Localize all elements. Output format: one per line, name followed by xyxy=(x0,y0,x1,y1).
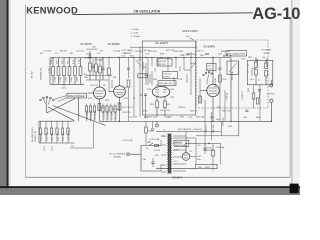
component labels center xyxy=(142,50,205,91)
svg-text:S2-1: S2-1 xyxy=(44,145,46,150)
resistor box R24 xyxy=(158,81,176,86)
svg-text:R20 390k: R20 390k xyxy=(174,51,184,53)
S3 contact dots xyxy=(223,54,231,56)
svg-text:C7 25μ: C7 25μ xyxy=(113,51,121,53)
left edge shadow xyxy=(9,0,11,195)
svg-text:C31 0.2μ: C31 0.2μ xyxy=(41,131,43,141)
svg-text:C34 .02μ: C34 .02μ xyxy=(58,131,60,141)
cathode resistor R10 xyxy=(118,103,126,110)
box 560k-390k xyxy=(196,164,218,169)
capacitor C10 xyxy=(144,94,147,117)
resistor chain x205 xyxy=(205,111,215,146)
extra rail labels xyxy=(121,51,231,58)
left vertical wire to bus xyxy=(38,121,40,143)
multiplier tap wires xyxy=(247,57,268,82)
resistor R7 xyxy=(89,58,92,81)
labels psu area xyxy=(142,126,233,161)
rotary switch S1 hub contacts xyxy=(40,96,55,105)
svg-text:FREQ RANGE: FREQ RANGE xyxy=(68,95,85,98)
legend notes xyxy=(131,29,143,38)
svg-text:C22 470P: C22 470P xyxy=(186,54,196,56)
page right border line xyxy=(289,19,291,177)
svg-text:R32 1k: R32 1k xyxy=(190,111,198,113)
oscillator network box xyxy=(157,59,172,66)
voltage multiplier enclosure box xyxy=(247,60,272,85)
6AR5 region verticals xyxy=(219,58,226,122)
switch shaft vertical wire xyxy=(78,97,80,121)
svg-text:560 ← 390V: 560 ← 390V xyxy=(198,167,211,169)
twin triode V1 12AT7 xyxy=(152,84,170,101)
filter cap C41 xyxy=(246,110,249,111)
capacitor C2 xyxy=(102,58,105,81)
wire tube1 plate xyxy=(86,79,108,81)
svg-text:C INPUT: C INPUT xyxy=(242,91,244,100)
svg-text:2. 1kHz: 2. 1kHz xyxy=(131,33,138,35)
capacitor bank small C56 xyxy=(110,104,114,122)
capacitor bank small C53 xyxy=(93,104,97,122)
svg-text:C26 0.1: C26 0.1 xyxy=(196,51,204,53)
right page edge line xyxy=(291,0,292,195)
label C44-B xyxy=(204,148,214,153)
svg-text:200V+2: 200V+2 xyxy=(175,142,183,144)
jack small circle below rail xyxy=(156,121,159,127)
inner verticals of S4 section xyxy=(140,47,191,118)
svg-text:S3-2: S3-2 xyxy=(241,59,246,61)
svg-text:R13 470: R13 470 xyxy=(122,112,131,114)
svg-text:C4 0.02: C4 0.02 xyxy=(76,51,84,53)
cathode resistor R9 xyxy=(98,104,105,111)
junction dots lower xyxy=(119,116,272,144)
pentode V2 6AR5 xyxy=(200,58,219,122)
triode V1b 6AV6 xyxy=(109,58,125,122)
svg-text:C36 5000P: C36 5000P xyxy=(69,130,71,141)
svg-text:2.2M: 2.2M xyxy=(49,68,51,73)
multiplier resistor chain B xyxy=(265,60,268,85)
range capacitor C36 xyxy=(67,121,71,143)
page bottom border line xyxy=(26,176,291,178)
svg-text:C6 100P: C6 100P xyxy=(104,110,106,119)
svg-text:C23 0.1: C23 0.1 xyxy=(164,74,172,76)
wire rail to attenuator xyxy=(230,58,232,122)
svg-text:R24 47k+47k: R24 47k+47k xyxy=(159,83,173,85)
svg-text:R8 500k: R8 500k xyxy=(116,110,118,119)
power transformer T1 xyxy=(167,134,171,174)
output terminal J1 xyxy=(270,80,273,87)
svg-text:VOLTAGE: VOLTAGE xyxy=(261,49,272,52)
extra labels right of tubes xyxy=(88,87,129,100)
grid cluster components xyxy=(92,58,102,81)
switch wiper wire C xyxy=(52,105,105,125)
svg-text:200 10P: 200 10P xyxy=(158,61,167,63)
labels right mid column xyxy=(215,77,229,100)
grid components cluster xyxy=(108,58,112,93)
svg-text:10P: 10P xyxy=(207,69,211,71)
svg-text:C32 0.1μ: C32 0.1μ xyxy=(47,131,49,141)
psu filter caps xyxy=(204,144,215,171)
second label row above rail xyxy=(43,47,121,53)
wave switch S4 contacts xyxy=(203,72,212,85)
grid line across xyxy=(130,46,197,48)
corner registration black square xyxy=(290,184,299,194)
svg-text:C13 50μ: C13 50μ xyxy=(134,51,143,53)
svg-text:CM 200/4W: CM 200/4W xyxy=(86,49,98,51)
svg-text:S4-1: S4-1 xyxy=(138,60,143,62)
capacitor C30 xyxy=(152,158,155,167)
right margin strip xyxy=(293,0,301,195)
svg-text:C7 50P: C7 50P xyxy=(112,112,114,120)
capacitor box C23 xyxy=(163,72,178,79)
svg-text:10k ←12k: 10k ←12k xyxy=(160,110,171,112)
bus under resistor bank xyxy=(50,83,84,85)
lower bus y163 xyxy=(196,135,239,137)
B+ rail from rectifier xyxy=(186,143,221,145)
capacitor bank small C52 xyxy=(89,104,93,122)
range capacitor C35 xyxy=(61,121,65,143)
wire tube1 area to AC region xyxy=(70,121,94,148)
svg-text:C28 25μ: C28 25μ xyxy=(223,117,225,126)
svg-text:C25 8μ: C25 8μ xyxy=(178,107,186,109)
ground bus wire xyxy=(39,142,75,144)
svg-text:C6 25μ: C6 25μ xyxy=(84,58,92,60)
svg-text:VR 500k: VR 500k xyxy=(232,71,234,80)
extra cluster near CM cap xyxy=(84,53,104,61)
svg-text:R7 100k: R7 100k xyxy=(95,60,104,62)
right-lower verticals xyxy=(248,85,260,122)
small labels top rail xyxy=(40,53,223,56)
bank top bus wire xyxy=(39,120,74,122)
range capacitor C32 xyxy=(45,121,49,143)
dashes texture marks in S4 box xyxy=(143,62,191,95)
resistor R16 xyxy=(164,101,167,117)
label row center y55 xyxy=(122,50,195,81)
svg-text:C15 0.1: C15 0.1 xyxy=(126,107,134,109)
bottom rail wire xyxy=(156,167,196,169)
PSU spec box xyxy=(174,140,189,147)
S4 wiper arrows xyxy=(136,60,196,68)
range capacitor C33 xyxy=(50,121,54,143)
bottom page dark edge xyxy=(0,186,300,188)
svg-text:WAVE FORM: WAVE FORM xyxy=(182,30,197,33)
svg-text:V1 6AV6: V1 6AV6 xyxy=(80,42,92,46)
svg-text:V1 12AT7: V1 12AT7 xyxy=(155,41,168,45)
attenuator label box R63 xyxy=(226,51,247,57)
multiplier resistor chain A xyxy=(255,58,258,85)
left page dark edge xyxy=(7,0,9,195)
node dots on rail xyxy=(52,57,213,59)
svg-text:R4 8M(F+F): R4 8M(F+F) xyxy=(41,68,43,80)
svg-text:C38 40μ: C38 40μ xyxy=(216,147,225,149)
svg-text:R6 1M(F): R6 1M(F) xyxy=(108,110,110,120)
svg-text:3. 10kHz: 3. 10kHz xyxy=(131,36,140,38)
svg-text:G: G xyxy=(104,90,106,92)
svg-text:AG-10: AG-10 xyxy=(252,5,300,23)
resistor R1 xyxy=(49,58,54,85)
mid-left horizontal wire y75 xyxy=(86,75,112,77)
svg-text:R18 27k: R18 27k xyxy=(149,51,158,53)
labels row below tubes xyxy=(126,107,231,113)
labels psu detail xyxy=(148,130,202,161)
cap C13 xyxy=(145,63,148,85)
capacitor bank small C57 xyxy=(114,104,118,122)
resistor R5 xyxy=(74,58,77,85)
svg-text:R17 1M(B): R17 1M(B) xyxy=(122,50,133,52)
page left border line xyxy=(25,5,27,178)
left scan border grey strip xyxy=(0,0,7,195)
svg-text:50/60Hz: 50/60Hz xyxy=(113,156,121,158)
switch shaft stub xyxy=(46,105,48,113)
resistor R4 xyxy=(68,58,71,85)
svg-text:OUTPUT: OUTPUT xyxy=(267,94,276,96)
left vertical wire xyxy=(49,58,51,85)
misc labels lower mid xyxy=(128,117,215,119)
svg-text:+000: +000 xyxy=(61,88,67,90)
mid horizontal wire xyxy=(99,120,271,122)
small caps at x259 xyxy=(258,90,261,99)
svg-text:R34 12k: R34 12k xyxy=(213,124,215,133)
vertical wire x239 xyxy=(238,61,240,136)
power switch S5 xyxy=(146,142,153,150)
bottom scan border grey strip xyxy=(0,188,300,195)
header rule line xyxy=(73,13,254,15)
lower mid rail wire xyxy=(156,131,221,133)
svg-text:C9 50μ: C9 50μ xyxy=(112,109,120,111)
svg-text:C5 250P: C5 250P xyxy=(95,110,97,119)
extra rail labels 2 xyxy=(134,51,196,56)
rail junction dots tile B xyxy=(95,57,191,58)
small labels lower right xyxy=(216,117,261,126)
svg-text:C35 .01μ: C35 .01μ xyxy=(63,131,65,141)
misc labels mid left xyxy=(84,74,117,87)
svg-text:S2-2: S2-2 xyxy=(52,145,54,150)
svg-text:KENWOOD: KENWOOD xyxy=(26,6,78,16)
oscillator section solid enclosure xyxy=(142,41,195,115)
screen resistor R30 xyxy=(219,75,228,82)
svg-text:5.0-5V 6A: 5.0-5V 6A xyxy=(123,139,133,142)
svg-text:R28 280(7W) + 500μF(L): R28 280(7W) + 500μF(L) xyxy=(178,129,203,131)
svg-text:C8 0.02: C8 0.02 xyxy=(90,85,98,87)
svg-text:CM: CM xyxy=(92,47,96,49)
svg-text:S6-2M 7.5F: S6-2M 7.5F xyxy=(35,130,37,142)
coupling components near V2 xyxy=(199,78,205,112)
heater tap labels xyxy=(162,136,179,163)
svg-text:AC 117V(50/60): AC 117V(50/60) xyxy=(110,153,126,156)
svg-text:R60 900k: R60 900k xyxy=(267,57,269,67)
svg-text:F1 1A: F1 1A xyxy=(154,149,160,152)
range capacitor C31 xyxy=(39,121,43,143)
svg-text:AT 46T: AT 46T xyxy=(31,70,34,78)
svg-text:R4 1M: R4 1M xyxy=(60,51,67,53)
svg-text:MULTI: MULTI xyxy=(264,53,271,55)
pilot lamp wire xyxy=(151,121,154,131)
resistor box x130 xyxy=(127,80,130,121)
AC plug P1 xyxy=(110,153,142,159)
output terminal J2 xyxy=(270,99,273,121)
svg-text:6.3V 0.6A: 6.3V 0.6A xyxy=(150,138,160,141)
svg-text:R22 470: R22 470 xyxy=(148,117,157,119)
rectifier tube V3 6X4 xyxy=(182,144,190,161)
transformer aux wires xyxy=(173,138,196,164)
labels left column detail xyxy=(41,68,79,82)
paper background xyxy=(0,0,300,195)
svg-text:C29 0.1: C29 0.1 xyxy=(206,125,208,133)
svg-text:R4 2M(F): R4 2M(F) xyxy=(91,110,93,120)
capacitor bank small C51 xyxy=(85,104,89,122)
extra labels center bottom xyxy=(133,117,205,119)
ground mark xyxy=(61,84,67,89)
svg-text:C38 8μ: C38 8μ xyxy=(227,92,229,100)
svg-text:VR 2M: VR 2M xyxy=(158,64,165,66)
svg-text:V2 6AR5: V2 6AR5 xyxy=(108,42,120,46)
switch wiper wire B xyxy=(48,107,75,121)
misc labels bottom left bank xyxy=(71,146,74,148)
wire multiplier to output xyxy=(256,84,271,86)
resistor R2 xyxy=(57,58,60,85)
extra center verticals in S4 box xyxy=(133,58,191,118)
extra labels right column mid xyxy=(232,71,244,100)
capacitor C1 xyxy=(86,49,98,57)
top B+ rail wire xyxy=(50,57,231,59)
fuse F1 xyxy=(155,144,159,146)
svg-text:CR OSCILLATOR: CR OSCILLATOR xyxy=(134,9,161,13)
range capacitor C34 xyxy=(56,121,60,143)
wires freq-range box to hub xyxy=(55,96,67,102)
svg-text:R31 50k: R31 50k xyxy=(196,117,205,119)
bank2 lower part labels xyxy=(44,145,54,150)
attenuator pot box xyxy=(227,61,239,75)
capacitor bank small C54 xyxy=(102,104,106,122)
value labels left bank xyxy=(51,58,81,64)
svg-text:R36 470k: R36 470k xyxy=(221,51,231,53)
resistor R8 xyxy=(95,58,98,81)
grid box 6AR5 xyxy=(207,64,217,71)
output section dashed enclosure xyxy=(197,40,269,108)
svg-text:50WV: 50WV xyxy=(164,77,170,79)
triode V1a 6AV6 xyxy=(88,80,106,121)
primary circuit loop xyxy=(141,140,161,171)
svg-text:R61 90k: R61 90k xyxy=(257,58,259,67)
capacitor bank small C55 xyxy=(106,104,110,122)
svg-text:6.3V: 6.3V xyxy=(174,150,179,152)
svg-text:05 2M(F): 05 2M(F) xyxy=(87,110,89,119)
resistor R3 xyxy=(63,58,66,85)
transformer primary taps xyxy=(161,136,166,172)
cap symbol pairs scattered xyxy=(127,58,130,79)
svg-text:V3 6X4: V3 6X4 xyxy=(172,176,182,180)
svg-text:C1 470P: C1 470P xyxy=(43,51,52,53)
svg-text:C33 .05μ: C33 .05μ xyxy=(52,131,54,141)
svg-text:63A 150μA: 63A 150μA xyxy=(175,144,186,147)
svg-text:R35 6.8k: R35 6.8k xyxy=(215,77,217,87)
transformer secondary taps xyxy=(173,136,186,171)
switch wiper arm xyxy=(47,99,76,114)
svg-text:V2 6AR5: V2 6AR5 xyxy=(203,45,215,49)
svg-text:R37 270: R37 270 xyxy=(222,111,231,113)
label VOLTAGE MULTI xyxy=(261,49,272,55)
heater dropper resistor R45 xyxy=(145,121,154,145)
labels near 12AT7 xyxy=(150,97,175,106)
cathode resistor R15 xyxy=(156,101,159,117)
svg-text:1. 50Hz: 1. 50Hz xyxy=(131,29,139,31)
extra labels right of multiplier xyxy=(241,57,253,61)
small box left xyxy=(138,74,148,78)
extra labels tube area left xyxy=(90,85,131,114)
resistor R6 xyxy=(79,58,82,85)
FREQ RANGE switch box S1 xyxy=(67,93,87,98)
svg-text:RL-0562 (F+F): RL-0562 (F+F) xyxy=(32,127,34,142)
